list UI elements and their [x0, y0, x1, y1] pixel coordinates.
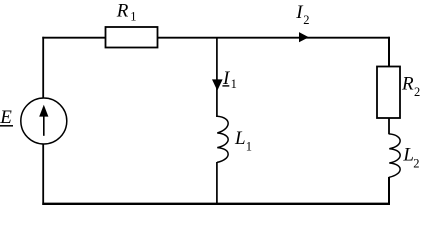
- svg-text:R: R: [116, 1, 129, 22]
- resistor R2 label: [401, 73, 420, 99]
- resistor R1 label: [116, 1, 137, 24]
- inductor L1 coil: [217, 116, 228, 162]
- wire top horizontal (R1 to right corner): [158, 37, 390, 39]
- current arrow I2 (right): [299, 32, 309, 42]
- resistor R1 body: [106, 27, 158, 48]
- source E arrowhead: [39, 105, 48, 117]
- inductor L1 label: [234, 128, 252, 153]
- inductor L2 label: [402, 145, 419, 171]
- wire left vertical upper (corner to source top): [42, 37, 44, 99]
- wire middle vertical upper (top wire to L1): [216, 38, 218, 117]
- current arrow I1 (down): [212, 79, 223, 90]
- wire right vertical lower (L2 to bottom wire): [388, 177, 390, 205]
- current label I2: [295, 2, 309, 27]
- resistor R2 body: [377, 67, 400, 119]
- wire right vertical mid (R2 to L2): [388, 117, 390, 134]
- source E circle: [21, 98, 67, 144]
- wire middle vertical lower (L1 to bottom wire): [216, 162, 218, 205]
- wire left vertical lower (source bottom to bottom wire): [42, 144, 44, 205]
- svg-text:1: 1: [246, 139, 252, 153]
- svg-text:1: 1: [231, 77, 237, 91]
- source E label: [0, 107, 13, 128]
- wire top-left horizontal (E to R1): [42, 37, 105, 39]
- svg-text:2: 2: [413, 157, 419, 171]
- svg-text:2: 2: [414, 85, 420, 99]
- current label I1: [222, 68, 237, 91]
- svg-text:2: 2: [303, 13, 309, 27]
- wire bottom horizontal: [42, 203, 390, 205]
- svg-text:1: 1: [130, 9, 136, 23]
- inductor L2 coil: [389, 134, 400, 177]
- svg-text:L: L: [234, 128, 246, 149]
- svg-text:E: E: [0, 107, 12, 128]
- svg-text:R: R: [401, 73, 414, 94]
- wire right vertical upper (corner to R2): [388, 37, 390, 67]
- source E arrow shaft: [43, 111, 45, 136]
